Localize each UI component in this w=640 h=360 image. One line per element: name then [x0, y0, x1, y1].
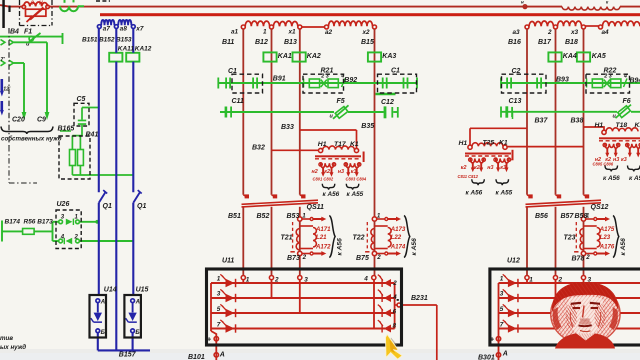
svg-text:B11: B11 — [222, 39, 234, 46]
svg-text:2: 2 — [302, 254, 307, 261]
svg-text:K1: K1 — [499, 139, 508, 146]
svg-text:к А56: к А56 — [336, 238, 343, 256]
svg-text:5: 5 — [217, 306, 221, 313]
svg-text:B231: B231 — [411, 295, 428, 302]
svg-text:к2: к2 — [324, 169, 330, 175]
svg-text:U15: U15 — [136, 286, 149, 293]
svg-text:A: A — [135, 300, 140, 306]
svg-text:U26: U26 — [57, 201, 70, 208]
svg-text:1: 1 — [302, 213, 306, 220]
svg-text:H: H — [39, 1, 43, 7]
svg-text:к А5: к А5 — [629, 175, 640, 182]
svg-text:T18: T18 — [616, 122, 628, 129]
svg-text:2: 2 — [392, 280, 397, 287]
svg-text:B75: B75 — [356, 255, 369, 262]
svg-text:K1: K1 — [635, 122, 640, 129]
svg-text:A: A — [219, 351, 225, 358]
svg-text:B13: B13 — [284, 39, 297, 46]
svg-text:x1: x1 — [288, 28, 297, 35]
svg-text:2: 2 — [376, 254, 381, 261]
svg-text:a8: a8 — [120, 26, 128, 33]
svg-text:B91: B91 — [273, 76, 286, 83]
svg-text:+: + — [490, 334, 495, 343]
svg-text:B56: B56 — [535, 213, 548, 220]
svg-text:4: 4 — [623, 74, 627, 80]
svg-text:н3: н3 — [338, 169, 344, 175]
svg-text:1: 1 — [377, 213, 381, 220]
svg-text:А172: А172 — [315, 244, 331, 251]
svg-text:к3: к3 — [500, 165, 506, 171]
svg-text:KA12: KA12 — [135, 46, 152, 53]
svg-text:5: 5 — [500, 306, 504, 313]
svg-text:к А56: к А56 — [466, 189, 483, 196]
svg-text:C13: C13 — [509, 98, 522, 105]
svg-text:C1: C1 — [391, 68, 400, 75]
svg-text:B51: B51 — [228, 213, 241, 220]
svg-text:C5: C5 — [77, 96, 86, 103]
svg-text:B78: B78 — [572, 256, 585, 263]
svg-text:B93: B93 — [556, 77, 569, 84]
svg-text:KA5: KA5 — [592, 53, 606, 60]
svg-text:к А56: к А56 — [411, 238, 418, 256]
svg-text:Б: Б — [101, 330, 106, 336]
svg-text:B33: B33 — [281, 124, 294, 131]
svg-text:C1: C1 — [228, 68, 237, 75]
svg-text:3: 3 — [500, 291, 504, 298]
svg-text:R41: R41 — [86, 132, 99, 139]
svg-text:7: 7 — [500, 321, 504, 328]
svg-text:B12: B12 — [255, 39, 268, 46]
svg-text:B53: B53 — [287, 213, 300, 220]
svg-text:B52: B52 — [257, 213, 270, 220]
svg-text:KA2: KA2 — [307, 53, 321, 60]
svg-text:a2: a2 — [325, 29, 333, 36]
svg-text:к А56: к А56 — [323, 191, 340, 198]
svg-text:F5: F5 — [337, 98, 345, 105]
svg-text:2: 2 — [74, 234, 79, 240]
svg-text:a3: a3 — [513, 29, 521, 36]
svg-text:А174: А174 — [390, 244, 406, 251]
svg-text:к2: к2 — [461, 165, 467, 171]
svg-text:B174: B174 — [5, 218, 21, 225]
svg-text:к А56: к А56 — [620, 238, 627, 256]
svg-text:QS12: QS12 — [591, 204, 609, 211]
svg-text:А173: А173 — [390, 226, 406, 233]
svg-text:4: 4 — [60, 234, 65, 240]
svg-text:C20: C20 — [12, 117, 25, 124]
svg-text:7: 7 — [217, 321, 221, 328]
svg-text:2 3: 2 3 — [320, 74, 329, 80]
svg-text:Q1: Q1 — [103, 203, 112, 210]
svg-text:B38: B38 — [571, 118, 584, 125]
svg-text:C9: C9 — [37, 117, 46, 124]
svg-text:1: 1 — [500, 276, 504, 283]
svg-text:4: 4 — [363, 276, 368, 283]
svg-text:T23: T23 — [564, 235, 576, 242]
svg-text:U14: U14 — [104, 286, 117, 293]
svg-text:1: 1 — [217, 276, 221, 283]
svg-text:L21: L21 — [316, 234, 327, 241]
svg-text:B301: B301 — [478, 354, 495, 360]
svg-text:3: 3 — [304, 276, 308, 283]
svg-text:C12: C12 — [381, 99, 394, 106]
svg-text:a1: a1 — [231, 28, 239, 35]
svg-text:Б: Б — [135, 330, 140, 336]
svg-text:B101: B101 — [188, 354, 205, 360]
svg-text:B152: B152 — [99, 36, 115, 43]
svg-text:к3: к3 — [621, 157, 627, 163]
svg-text:U11: U11 — [222, 258, 234, 265]
svg-text:B173: B173 — [37, 218, 53, 225]
svg-text:A: A — [502, 351, 508, 358]
svg-text:H1: H1 — [318, 141, 327, 148]
svg-text:+: + — [207, 334, 212, 343]
svg-text:K1: K1 — [350, 141, 359, 148]
svg-text:12': 12' — [3, 87, 11, 93]
svg-text:x7: x7 — [135, 26, 144, 33]
svg-text:B151: B151 — [82, 36, 98, 43]
svg-text:А175: А175 — [599, 226, 615, 233]
svg-text:8: 8 — [31, 1, 34, 7]
svg-text:C2: C2 — [512, 68, 521, 75]
svg-text:к А56: к А56 — [603, 175, 620, 182]
svg-text:B4: B4 — [10, 29, 19, 36]
svg-text:B32: B32 — [252, 145, 265, 152]
svg-text:н3: н3 — [613, 157, 619, 163]
svg-text:B18: B18 — [565, 39, 578, 46]
svg-text:С801 С802: С801 С802 — [313, 176, 334, 181]
svg-text:к2: к2 — [474, 165, 480, 171]
svg-text:T21: T21 — [281, 235, 293, 242]
svg-text:1: 1 — [529, 276, 533, 283]
svg-text:B15: B15 — [361, 39, 374, 46]
svg-text:8: 8 — [393, 323, 397, 330]
svg-text:B157: B157 — [119, 352, 137, 359]
svg-text:T25: T25 — [483, 139, 495, 146]
svg-text:a4: a4 — [602, 29, 610, 36]
svg-text:L23: L23 — [600, 234, 611, 241]
svg-text:KA4: KA4 — [563, 53, 577, 60]
svg-text:R56: R56 — [24, 218, 36, 225]
svg-text:6: 6 — [393, 309, 397, 316]
svg-text:L22: L22 — [391, 234, 402, 241]
svg-text:F6: F6 — [623, 98, 631, 105]
svg-text:н2: н2 — [312, 169, 318, 175]
svg-text:н: н — [521, 0, 524, 5]
svg-text:2: 2 — [274, 276, 279, 283]
svg-text:KA1: KA1 — [278, 53, 292, 60]
svg-text:A: A — [100, 300, 105, 306]
svg-text:U12: U12 — [507, 258, 520, 265]
svg-text:T22: T22 — [353, 235, 365, 242]
svg-text:2: 2 — [585, 254, 590, 261]
svg-text:x2: x2 — [362, 29, 371, 36]
svg-text:C11: C11 — [232, 98, 244, 105]
svg-text:А176: А176 — [599, 244, 615, 251]
svg-text:1: 1 — [246, 276, 250, 283]
svg-text:собственных нужд: собственных нужд — [1, 135, 62, 142]
svg-text:F1: F1 — [24, 29, 32, 36]
svg-text:B16: B16 — [508, 39, 521, 46]
svg-text:ых нужд: ых нужд — [0, 344, 26, 351]
svg-text:B153: B153 — [116, 36, 132, 43]
svg-text:2: 2 — [547, 29, 552, 36]
svg-text:2: 2 — [558, 276, 563, 283]
svg-text:С803 С804: С803 С804 — [346, 176, 367, 181]
svg-text:н3: н3 — [487, 165, 493, 171]
svg-text:к А55: к А55 — [347, 191, 364, 198]
svg-text:А171: А171 — [315, 226, 331, 233]
svg-text:B165: B165 — [58, 126, 75, 133]
svg-text:B37: B37 — [535, 118, 549, 125]
svg-text:тив: тив — [0, 335, 13, 342]
svg-text:С805 С806: С805 С806 — [593, 161, 614, 166]
svg-text:3: 3 — [217, 291, 221, 298]
svg-text:С811 С812: С811 С812 — [458, 174, 479, 179]
svg-text:x3: x3 — [570, 29, 579, 36]
svg-text:4: 4 — [392, 294, 397, 301]
svg-text:H1: H1 — [459, 140, 468, 147]
svg-text:B92: B92 — [344, 77, 357, 84]
svg-text:B17: B17 — [538, 39, 552, 46]
svg-text:B94: B94 — [630, 77, 640, 84]
svg-text:T17: T17 — [334, 141, 347, 148]
svg-text:B58: B58 — [575, 213, 588, 220]
svg-text:B73: B73 — [287, 255, 300, 262]
svg-text:Q1: Q1 — [137, 203, 146, 210]
svg-text:к3: к3 — [351, 169, 357, 175]
svg-text:B35: B35 — [361, 123, 374, 130]
svg-text:B57: B57 — [561, 213, 575, 220]
svg-text:к А55: к А55 — [496, 189, 513, 196]
svg-text:H1: H1 — [595, 122, 604, 129]
svg-text:KA3: KA3 — [382, 53, 396, 60]
svg-text:KA11: KA11 — [118, 46, 135, 53]
svg-text:a7: a7 — [103, 26, 111, 33]
svg-text:1: 1 — [263, 28, 267, 35]
svg-text:QS11: QS11 — [307, 204, 324, 211]
svg-text:2 3: 2 3 — [603, 74, 612, 80]
